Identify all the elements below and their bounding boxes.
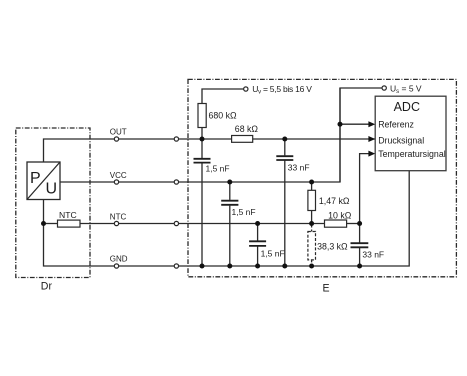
svg-text:Dr: Dr (41, 281, 53, 293)
svg-text:U: U (46, 181, 58, 198)
svg-text:1,5 nF: 1,5 nF (232, 207, 256, 217)
svg-text:Us = 5 V: Us = 5 V (390, 83, 422, 94)
svg-text:1,5 nF: 1,5 nF (261, 248, 285, 258)
svg-text:33 nF: 33 nF (362, 249, 384, 259)
svg-text:68 kΩ: 68 kΩ (235, 124, 259, 134)
svg-text:GND: GND (110, 254, 128, 263)
svg-text:VCC: VCC (110, 171, 127, 180)
svg-text:ADC: ADC (394, 100, 420, 114)
svg-text:Uv = 5,5 bis 16 V: Uv = 5,5 bis 16 V (252, 84, 312, 95)
svg-text:38,3 kΩ: 38,3 kΩ (317, 241, 348, 251)
svg-text:Referenz: Referenz (378, 120, 414, 130)
svg-text:1,47 kΩ: 1,47 kΩ (319, 196, 350, 206)
svg-text:P: P (30, 170, 41, 187)
svg-text:1,5 nF: 1,5 nF (206, 163, 230, 173)
svg-text:680 kΩ: 680 kΩ (209, 110, 238, 120)
svg-text:10 kΩ: 10 kΩ (328, 210, 352, 220)
svg-text:E: E (323, 282, 330, 294)
svg-text:NTC: NTC (59, 210, 77, 220)
svg-text:33 nF: 33 nF (288, 162, 310, 172)
svg-text:Temperatursignal: Temperatursignal (378, 149, 446, 159)
svg-text:OUT: OUT (110, 127, 127, 136)
svg-text:NTC: NTC (110, 212, 127, 221)
svg-text:Drucksignal: Drucksignal (378, 135, 424, 145)
